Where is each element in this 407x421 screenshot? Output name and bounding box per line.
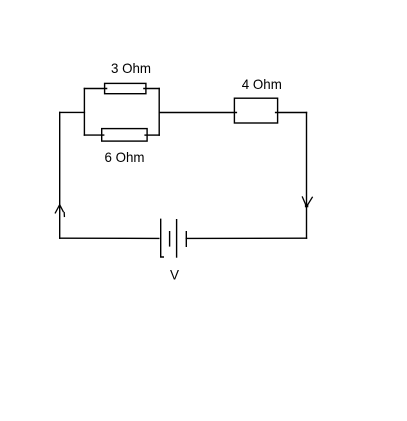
wire: top branch left segment <box>84 88 106 90</box>
svg-text:V: V <box>170 268 179 283</box>
wire: node B lead from parallel block to R3 <box>159 112 236 114</box>
battery V negative plate (outer short) <box>185 232 187 247</box>
svg-text:3 Ohm: 3 Ohm <box>111 60 151 76</box>
wire: bottom rail right segment from battery <box>186 237 306 239</box>
wire: node A lead from left rail to parallel block <box>60 111 85 113</box>
resistor R2 6 Ohm <box>102 129 147 142</box>
battery V negative plate (inner short) <box>169 232 171 246</box>
wire: top branch right segment <box>144 88 159 90</box>
wire: bottom rail left segment to battery <box>60 237 159 239</box>
resistor R3 4 Ohm <box>234 98 277 123</box>
resistor R1 3 Ohm <box>105 83 146 93</box>
svg-text:4 Ohm: 4 Ohm <box>242 76 282 92</box>
wire: parallel block right rail <box>158 89 160 136</box>
wire: right rail vertical <box>306 113 308 239</box>
battery V positive plate (outer long) <box>161 219 164 257</box>
wire: left rail vertical <box>59 112 61 238</box>
wire: bottom branch left segment <box>84 134 103 136</box>
arrow: current direction up on left rail <box>55 205 64 217</box>
wire: bottom branch right segment <box>145 134 159 136</box>
wire: parallel block left rail <box>83 89 85 136</box>
wire: lead from R3 to right rail <box>276 112 307 114</box>
svg-text:6 Ohm: 6 Ohm <box>105 149 145 165</box>
battery V positive plate (inner long) <box>176 220 178 257</box>
arrow: current direction down on right rail <box>302 197 312 207</box>
